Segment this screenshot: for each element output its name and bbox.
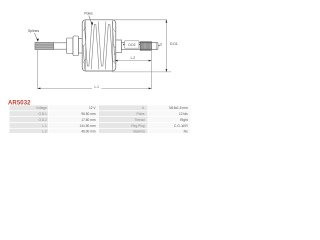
shaft tip — [152, 42, 159, 49]
svg-text:17.80 mm: 17.80 mm — [81, 118, 96, 122]
poles label — [84, 12, 93, 26]
svg-text:L.2: L.2 — [42, 130, 47, 133]
svg-text:O.D.1: O.D.1 — [38, 112, 47, 116]
svg-text:46.00 mm: 46.00 mm — [81, 130, 96, 133]
svg-text:d.: d. — [142, 106, 145, 110]
row 2 — [10, 111, 191, 116]
svg-text:M16x1.5 mm: M16x1.5 mm — [169, 106, 188, 110]
step cylinder 3 — [79, 39, 83, 54]
O.D1 dimension line — [166, 20, 168, 72]
slip ring collar — [116, 40, 122, 53]
svg-text:12 tds: 12 tds — [179, 112, 188, 116]
pole claw section — [82, 20, 116, 71]
svg-text:Bearing: Bearing — [134, 130, 145, 133]
svg-text:Poles: Poles — [137, 112, 145, 116]
svg-text:L.1: L.1 — [42, 124, 47, 128]
spline shaft section — [35, 43, 54, 50]
threaded section — [140, 42, 151, 50]
svg-text:O.D2: O.D2 — [128, 43, 136, 47]
L.1 label — [92, 84, 102, 89]
svg-text:Thread: Thread — [134, 118, 144, 122]
splines label — [28, 29, 39, 42]
svg-text:O.D1: O.D1 — [170, 42, 178, 46]
L.1 extension lines — [37, 50, 39, 89]
svg-text:Splines: Splines — [28, 29, 39, 33]
row 4 — [10, 123, 191, 128]
O.D1 bottom extension line — [112, 71, 171, 73]
svg-text:L.1: L.1 — [94, 85, 99, 89]
right shaft — [122, 42, 141, 49]
svg-text:C.G.-W.R: C.G.-W.R — [174, 124, 188, 128]
svg-text:Poles: Poles — [84, 12, 93, 16]
svg-text:Voltage: Voltage — [36, 106, 47, 110]
svg-text:12 V: 12 V — [89, 106, 96, 110]
tip end line — [155, 43, 157, 50]
svg-text:L.2: L.2 — [131, 56, 136, 60]
d. label — [158, 43, 162, 47]
svg-text:96.50 mm: 96.50 mm — [81, 112, 96, 116]
row 3 — [10, 117, 191, 122]
row 5 — [10, 129, 191, 134]
svg-text:O.D.2: O.D.2 — [38, 118, 47, 122]
svg-text:Reg.Plug: Reg.Plug — [131, 124, 144, 128]
left shaft — [54, 43, 67, 49]
svg-text:Right: Right — [180, 118, 188, 122]
O.D1 top extension line — [113, 19, 167, 21]
svg-text:No: No — [184, 130, 188, 133]
spec table — [10, 105, 191, 134]
L.2 dimension line — [115, 60, 151, 62]
O.D2 dimension label box — [123, 41, 140, 48]
L.1 dimension line — [38, 88, 152, 90]
svg-text:d.: d. — [160, 43, 163, 47]
L.2 extension lines — [114, 53, 116, 62]
row 1 labels/values — [10, 105, 191, 110]
step cylinder 1 — [67, 38, 74, 54]
step cylinder 2 — [73, 36, 79, 56]
svg-text:141.50 mm: 141.50 mm — [80, 124, 96, 128]
